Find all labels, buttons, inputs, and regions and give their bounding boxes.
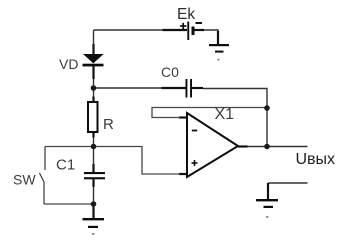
- svg-text:C0: C0: [161, 64, 179, 80]
- svg-text:C1: C1: [56, 157, 75, 174]
- svg-text:VD: VD: [59, 56, 78, 72]
- svg-text:R: R: [103, 116, 114, 133]
- svg-text:Ek: Ek: [177, 6, 195, 23]
- svg-text:SW: SW: [13, 172, 36, 188]
- svg-text:X1: X1: [215, 106, 235, 123]
- svg-text:Uвых: Uвых: [296, 151, 336, 168]
